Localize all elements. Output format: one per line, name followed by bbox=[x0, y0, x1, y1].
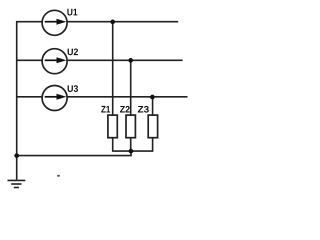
junction dot neutral / return bbox=[14, 153, 19, 158]
wire left neutral bus (vertical) bbox=[16, 21, 18, 180]
source U1 (circle) bbox=[42, 10, 67, 35]
impedance Z1 (rect) bbox=[108, 115, 117, 138]
wire phase C (bottom horizontal) bbox=[16, 96, 188, 98]
label Z3 bbox=[138, 106, 149, 113]
wire below Z3 bbox=[152, 137, 154, 151]
stray mark bbox=[57, 175, 60, 177]
junction dot wire B / Z2 drop bbox=[128, 58, 133, 63]
impedance Z3 (rect) bbox=[148, 115, 157, 138]
label Z1 bbox=[101, 106, 110, 113]
source U2 (circle) bbox=[42, 49, 67, 74]
wire phase A (top horizontal) bbox=[16, 21, 178, 23]
label U3 bbox=[68, 85, 78, 92]
wire below Z1 bbox=[112, 137, 114, 151]
label U2 bbox=[68, 49, 78, 56]
junction dot load bus bbox=[129, 149, 134, 154]
wire short vertical from load bus bbox=[130, 151, 132, 156]
wire bottom bus joining loads bbox=[112, 150, 153, 152]
junction dot wire A / Z1 drop bbox=[110, 20, 115, 25]
label U1 bbox=[67, 9, 77, 16]
wire drop to Z3 bbox=[152, 97, 154, 116]
source U3 (circle) bbox=[42, 86, 67, 111]
wire phase B (middle horizontal) bbox=[16, 59, 183, 61]
junction dot wire C / Z3 drop bbox=[150, 95, 155, 100]
wire drop to Z2 bbox=[130, 60, 132, 115]
wire below Z2 bbox=[130, 137, 132, 151]
label Z2 bbox=[120, 106, 130, 113]
ground bbox=[8, 180, 26, 187]
wire return to neutral bbox=[17, 155, 132, 157]
impedance Z2 (rect) bbox=[126, 115, 135, 138]
wire drop to Z1 bbox=[112, 22, 114, 116]
